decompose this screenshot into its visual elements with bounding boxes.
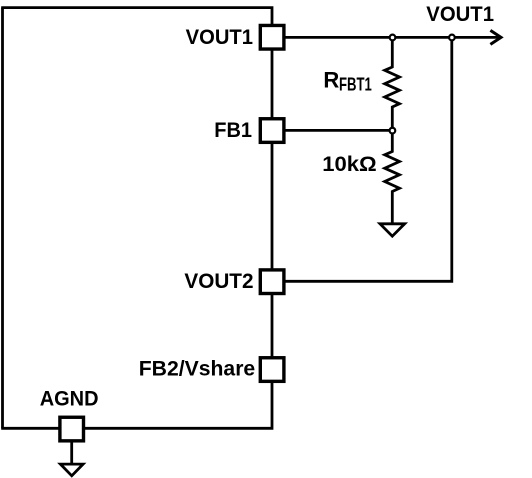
wire: bottom rail left of AGND: [1, 427, 60, 430]
arrowhead: VOUT1 output: [490, 30, 501, 44]
pin FB2/Vshare: [260, 358, 284, 382]
pin VOUT1: [260, 25, 284, 49]
wire: VOUT1 output: [286, 36, 500, 39]
node: FB1 divider tap: [390, 128, 396, 134]
ground: divider: [380, 224, 405, 236]
svg-text:VOUT1: VOUT1: [426, 3, 494, 27]
pin AGND: [60, 417, 84, 441]
wire: FB1 pin to divider tap: [286, 129, 391, 132]
ground: AGND: [60, 464, 83, 476]
svg-text:FB2/Vshare: FB2/Vshare: [139, 356, 256, 380]
wire: VOUT2 feedback to output node: [286, 40, 452, 281]
wire: left rail: [1, 8, 4, 429]
svg-text:R: R: [323, 68, 339, 93]
svg-text:AGND: AGND: [40, 387, 99, 411]
wire: bottom rail from AGND to pin column: [85, 381, 273, 428]
wire: VOUT1 pin to FB1 pin: [271, 49, 274, 120]
node: output junction at RFBT1: [390, 35, 396, 41]
wire: top rail to VOUT1 pin: [1, 8, 272, 26]
pin FB1: [260, 119, 284, 143]
wire: AGND pin to ground: [70, 441, 73, 464]
pin VOUT2: [260, 270, 284, 294]
svg-text:FB1: FB1: [214, 118, 252, 142]
node: output junction at feedback: [449, 35, 455, 41]
wire: VOUT2 pin to FB2 pin: [271, 294, 274, 360]
resistor 10k: [385, 133, 400, 223]
svg-text:VOUT2: VOUT2: [184, 270, 253, 293]
svg-text:VOUT1: VOUT1: [186, 25, 254, 49]
svg-text:FBT1: FBT1: [339, 74, 372, 95]
resistor RFBT1: [385, 40, 400, 128]
wire: FB1 pin to VOUT2 pin: [271, 142, 274, 271]
svg-text:10kΩ: 10kΩ: [322, 151, 376, 176]
